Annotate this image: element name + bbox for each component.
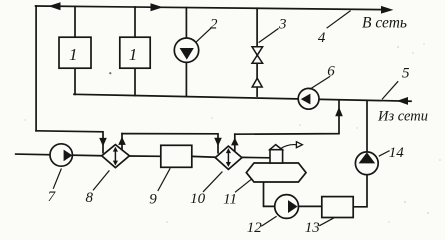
leader 12: [261, 216, 276, 226]
pump 6: [298, 88, 319, 109]
wire HX8 to box9: [129, 155, 160, 157]
svg-text:13: 13: [305, 220, 320, 236]
leader 4: [327, 11, 351, 29]
pump 7: [50, 144, 72, 166]
wire HX8 out up: [121, 134, 123, 151]
leader 2: [196, 28, 212, 43]
svg-text:1: 1: [69, 45, 78, 64]
wire return main line: [74, 94, 411, 101]
svg-text:В сеть: В сеть: [362, 15, 407, 32]
svg-text:2: 2: [210, 16, 218, 32]
wire HX10 out up: [234, 134, 236, 152]
wire supply top line: [36, 6, 382, 10]
svg-text:11: 11: [223, 191, 237, 207]
pump 2: [174, 38, 198, 62]
svg-text:5: 5: [402, 65, 410, 81]
vent arrow: [296, 142, 302, 148]
svg-text:6: 6: [327, 64, 335, 80]
wire pump12 to box13: [298, 205, 322, 207]
svg-text:1: 1: [129, 45, 138, 64]
wire water inlet: [16, 154, 102, 156]
wire line C to return: [235, 101, 339, 134]
arrow out of HX8: [118, 137, 126, 145]
wire box9 to HX10: [192, 155, 216, 158]
heat exchanger 10: [215, 146, 242, 169]
svg-text:12: 12: [247, 220, 263, 236]
arrow from network (left-pointing on main line): [397, 97, 408, 105]
boiler box 1a: [59, 37, 91, 68]
svg-text:4: 4: [318, 30, 326, 46]
leader 10: [203, 172, 222, 192]
wire pump2 branch: [185, 8, 187, 97]
svg-text:9: 9: [149, 192, 157, 208]
arrow flow left on top line: [48, 2, 60, 10]
wire left vertical: [35, 6, 37, 131]
leader 11: [235, 179, 251, 192]
leader 6: [310, 76, 331, 89]
svg-text:10: 10: [190, 191, 206, 207]
arrow to network (right end of top line): [381, 6, 393, 14]
leader 5: [382, 81, 398, 99]
arrow return riser up: [335, 107, 343, 116]
box 9: [161, 145, 192, 167]
wire boiler1 stubs: [74, 6, 76, 37]
arrow into HX8: [99, 138, 107, 147]
wire deaerator outlet to pump12: [264, 182, 275, 206]
deaerator column roof: [270, 145, 282, 150]
valve 3 (gate valve bowtie): [252, 47, 263, 87]
pump 12: [275, 195, 299, 219]
scan speckles: [109, 72, 111, 74]
svg-text:14: 14: [389, 145, 405, 161]
deaerator tank 11: [246, 163, 306, 182]
leader 3: [259, 28, 279, 42]
check valve triangle: [252, 78, 262, 87]
svg-text:8: 8: [85, 190, 93, 206]
wire box13 to pump14 riser: [353, 101, 367, 207]
wire line A to HX8: [36, 131, 103, 153]
heat exchanger 8: [102, 145, 130, 168]
wire boiler2 stubs: [134, 7, 136, 37]
wire line B to HX10: [122, 134, 218, 153]
svg-text:Из сети: Из сети: [377, 108, 428, 124]
arrow out of HX10: [231, 138, 239, 146]
vent line: [280, 145, 296, 149]
wire valve3 branch: [256, 8, 258, 96]
boiler box 1b: [120, 37, 150, 68]
leader 7: [53, 169, 61, 189]
leader 14: [379, 151, 390, 157]
arrow flow right on top line: [151, 3, 164, 11]
wire HX10 to deaerator: [242, 156, 270, 158]
box 13: [322, 197, 353, 218]
pump 14: [355, 152, 378, 175]
leader 9: [158, 168, 170, 191]
arrow into HX10: [214, 138, 222, 147]
svg-text:3: 3: [278, 17, 287, 33]
leader 13: [319, 218, 334, 226]
leader 8: [93, 170, 109, 190]
deaerator column: [270, 150, 283, 163]
